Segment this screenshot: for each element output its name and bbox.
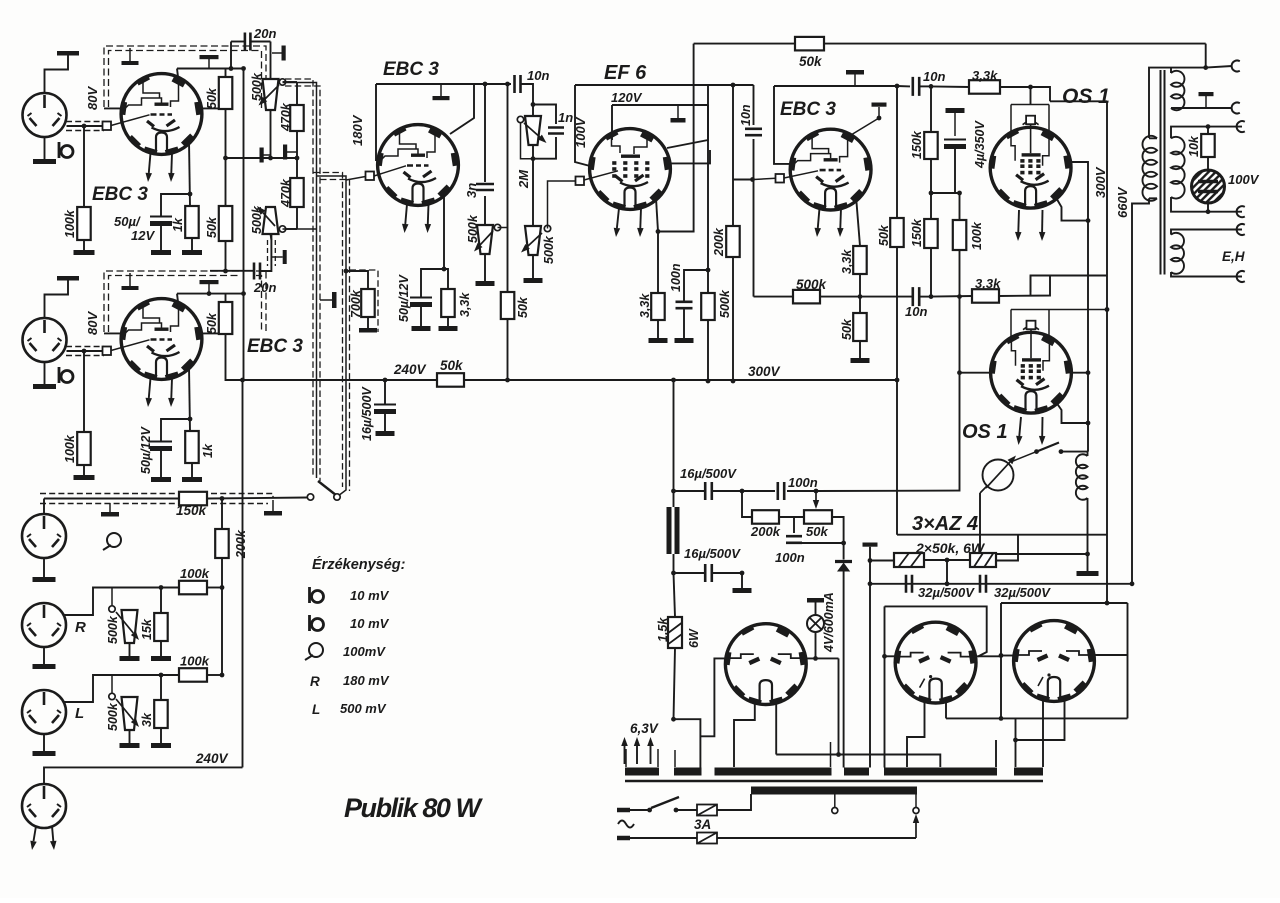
wire J3 to shielded line bbox=[43, 499, 45, 515]
node x897 rail bbox=[895, 378, 900, 383]
node coil bottom bbox=[1085, 552, 1090, 557]
wire to 3k bbox=[160, 675, 162, 700]
wire x708 vertical bbox=[707, 85, 709, 293]
svg-text:50k: 50k bbox=[840, 318, 854, 340]
resistor 200k bbox=[215, 529, 229, 558]
node heater tap bbox=[671, 717, 676, 722]
resistor 15k bbox=[154, 613, 168, 641]
wire 50k top to B+ bbox=[225, 69, 227, 78]
wire grid2 jog bbox=[1031, 276, 1108, 293]
transformer core bbox=[1160, 70, 1162, 275]
wire 150k mid bbox=[930, 159, 932, 219]
svg-text:100V: 100V bbox=[1228, 172, 1260, 187]
node x507 rail bbox=[505, 378, 510, 383]
svg-text:6W: 6W bbox=[687, 628, 701, 648]
selector terminal right bbox=[334, 494, 340, 500]
wire 15k to ground bbox=[160, 641, 162, 656]
wire node to R 100k ch2 bbox=[83, 351, 85, 432]
tube V2 EBC 3 bbox=[121, 299, 202, 380]
wire 120V inner right down bbox=[667, 105, 708, 148]
shield run pots dashed bbox=[285, 79, 313, 477]
heater arrows OS1 lower bbox=[1019, 417, 1021, 436]
wire 3.3k to OS1 grid node bbox=[1000, 86, 1031, 88]
svg-text:EBC 3: EBC 3 bbox=[383, 59, 439, 80]
capacitor 100n bias upper bbox=[742, 490, 775, 492]
svg-text:16µ/500V: 16µ/500V bbox=[360, 386, 374, 441]
wire OS plate bus bbox=[897, 534, 1107, 536]
ground below 1k V1 bbox=[182, 250, 202, 255]
tee ground 2x50k row bbox=[863, 543, 878, 547]
cathode wire EF6 bbox=[656, 198, 658, 232]
wire anode node to 3n chain bbox=[484, 84, 486, 182]
ground below 3k bbox=[151, 743, 171, 748]
svg-text:50k: 50k bbox=[205, 216, 219, 238]
ground tee at node row left bbox=[262, 154, 271, 156]
svg-text:200k: 200k bbox=[750, 524, 781, 539]
node rail x870 bbox=[868, 581, 873, 586]
shielded wire J2 to grid cap bbox=[67, 350, 104, 352]
resistor 500k x708 bbox=[701, 293, 715, 320]
svg-text:16µ/500V: 16µ/500V bbox=[680, 466, 737, 481]
capacitor 10n OS1 top bbox=[913, 77, 919, 96]
box V10 top bbox=[1001, 602, 1128, 604]
wire 100k R to bus bbox=[207, 587, 222, 589]
wire V2 left pin to shield bbox=[104, 332, 124, 334]
resistor 3.3k OS1 grid1 bbox=[931, 85, 969, 88]
wire 50u to ground bbox=[160, 226, 162, 250]
wire pot1 bottom to node bbox=[270, 110, 272, 158]
ground below pot tone A bbox=[476, 281, 495, 286]
wire 50u to ground ch2 bbox=[160, 451, 162, 477]
wire y101 link bbox=[1050, 100, 1107, 102]
svg-text:10n: 10n bbox=[739, 104, 753, 126]
pot tone A terminal bbox=[494, 224, 500, 230]
svg-text:1k: 1k bbox=[201, 443, 215, 458]
mains switch contact a bbox=[647, 808, 652, 813]
node cathode bus bbox=[1086, 218, 1091, 223]
svg-text:R: R bbox=[75, 619, 86, 636]
resistor 100k right bbox=[959, 193, 961, 220]
tube V8 AZ4 left bbox=[725, 624, 806, 705]
node cathode V1 bbox=[188, 192, 193, 197]
wire x870 ground line bbox=[869, 547, 871, 768]
selector switch blade bbox=[318, 481, 337, 496]
resistor 100k grid J2 bbox=[77, 432, 91, 465]
capacitor 100n EF6 bbox=[684, 270, 708, 301]
ground below J1 bbox=[33, 159, 56, 164]
svg-text:100k: 100k bbox=[180, 654, 210, 669]
wire between 50k 6W bbox=[924, 559, 970, 561]
secondary coil S3 bbox=[1171, 233, 1184, 274]
node grid2 junction bbox=[82, 349, 87, 354]
wire 20n left to anode line bbox=[230, 42, 232, 69]
wire V10 right pin bbox=[1091, 654, 1128, 656]
svg-text:10n: 10n bbox=[905, 304, 927, 319]
wire row to 3.3k grid2 bbox=[931, 295, 972, 298]
ground below 3.3k EF6 bbox=[649, 338, 668, 343]
cathode wire V2 to 1k bbox=[189, 366, 190, 431]
wire S2 top to hook3 bbox=[1171, 127, 1242, 139]
ground tee on anode line V1 bbox=[208, 59, 210, 69]
node lamp bottom bbox=[813, 656, 818, 661]
primary tap mid bbox=[832, 808, 838, 814]
ground tee right of 20n bbox=[272, 52, 284, 54]
svg-text:240V: 240V bbox=[393, 362, 427, 377]
wire x897 to rail bbox=[896, 247, 898, 380]
capacitor 32u/500V b bbox=[980, 575, 986, 593]
resistor 200k bias bbox=[752, 510, 779, 524]
svg-text:2M: 2M bbox=[516, 169, 531, 189]
winding bar segment B2 bbox=[715, 768, 832, 776]
wire V9 right pin bbox=[973, 655, 1001, 657]
potentiometer 500k ch1 bbox=[263, 79, 279, 110]
wire heater tap to bar bbox=[674, 719, 701, 767]
wire J1 shell to ground bbox=[45, 55, 69, 93]
fuse 3A upper bbox=[697, 805, 717, 816]
node V7 left bbox=[957, 370, 962, 375]
svg-text:180V: 180V bbox=[350, 114, 365, 146]
pot volume arrow bbox=[528, 233, 542, 246]
svg-text:100n: 100n bbox=[788, 475, 818, 490]
label mains AC bbox=[618, 821, 634, 828]
node bus R bbox=[220, 585, 225, 590]
svg-text:50k: 50k bbox=[799, 54, 823, 69]
node OS1 grid1 bbox=[1028, 85, 1033, 90]
wire 150k to selector bbox=[207, 498, 307, 499]
grid lead into V1 bbox=[111, 115, 150, 126]
legend symbol Q row3 bbox=[309, 643, 323, 657]
node 660V rail bbox=[1130, 581, 1135, 586]
ground below 700k bbox=[359, 328, 377, 333]
node 2M top bbox=[531, 102, 536, 107]
wire to pot 500k R wiper bbox=[111, 588, 113, 607]
resistor 50k x507 bbox=[501, 292, 515, 319]
wire V5 anode tee bbox=[846, 107, 879, 138]
resistor 100k R channel bbox=[179, 581, 207, 595]
wire 50k 6W b out bbox=[996, 535, 1018, 561]
wire 10n to 2M pot bbox=[521, 84, 534, 116]
wire coil bottom bbox=[1087, 498, 1089, 554]
resistor 50k anode V2 bbox=[219, 302, 233, 334]
inner wire 120V bbox=[612, 104, 708, 106]
node 4u bbox=[957, 191, 962, 196]
svg-text:3,3k: 3,3k bbox=[638, 293, 652, 318]
svg-text:200k: 200k bbox=[234, 529, 248, 559]
grid lead into V5 bbox=[754, 178, 776, 179]
wire row y296 to 10n bbox=[860, 296, 912, 298]
hook terminal 4 bbox=[1237, 206, 1245, 217]
pot L arrow bbox=[116, 699, 133, 720]
capacitor 50u/12V V1 bbox=[150, 216, 172, 218]
svg-text:E,H: E,H bbox=[1222, 249, 1245, 264]
wire feedback corner down bbox=[1205, 44, 1207, 68]
svg-text:700k: 700k bbox=[349, 289, 363, 318]
wire J1 to ground below bbox=[44, 137, 46, 159]
ground below pot volume bbox=[524, 278, 543, 283]
ground below 50u V2 bbox=[151, 477, 171, 482]
winding bar segment A bbox=[625, 768, 659, 776]
wire J4 bottom ground bbox=[43, 647, 45, 664]
potentiometer 500k L bbox=[122, 697, 138, 730]
svg-text:L: L bbox=[312, 702, 320, 717]
svg-text:300V: 300V bbox=[748, 364, 781, 379]
wire to 200k bbox=[221, 499, 223, 530]
capacitor 16u/500V lower bbox=[674, 572, 706, 574]
svg-text:3k: 3k bbox=[140, 712, 154, 727]
node x897 top bbox=[895, 84, 900, 89]
wire V8 right pin out bbox=[803, 657, 839, 659]
svg-text:10n: 10n bbox=[527, 68, 549, 83]
wire speaker bottom bbox=[1207, 203, 1209, 212]
trip switch contact right bbox=[1059, 449, 1064, 454]
node filter top bbox=[671, 489, 676, 494]
wire switch to coil bbox=[1061, 451, 1088, 453]
ground below pot R bbox=[120, 656, 140, 661]
grid lead into V2 bbox=[111, 340, 150, 351]
svg-text:1n: 1n bbox=[558, 110, 573, 125]
ground below 3.3k V3 bbox=[439, 326, 458, 331]
wire 3.3k EF6 ground bbox=[657, 320, 659, 338]
wire x959 down bbox=[958, 297, 960, 491]
tube V10 AZ4 right bbox=[1014, 621, 1095, 702]
svg-text:3,3k: 3,3k bbox=[972, 68, 998, 83]
wire coil top bbox=[1087, 452, 1089, 456]
node output top bbox=[1203, 65, 1208, 70]
svg-text:1,5k: 1,5k bbox=[656, 617, 670, 642]
shielded line to 150k bbox=[44, 498, 179, 500]
hook terminal 2 bbox=[1232, 103, 1240, 114]
wire switch lever to meter bbox=[1013, 452, 1037, 461]
wire 700k top bbox=[346, 271, 368, 289]
wire cathode to 3.3k bbox=[657, 232, 659, 294]
wire node to R 100k bbox=[83, 126, 85, 207]
svg-text:150k: 150k bbox=[910, 130, 924, 159]
ground tee V5 feed bbox=[854, 74, 856, 86]
transformer core line bbox=[625, 780, 1043, 782]
input jack J3 (pickup) bbox=[22, 514, 66, 558]
capacitor 50u/12V V3 bbox=[410, 297, 432, 299]
svg-text:3×AZ 4: 3×AZ 4 bbox=[912, 513, 978, 535]
svg-text:100mV: 100mV bbox=[343, 644, 386, 659]
wire segE end bbox=[995, 740, 997, 767]
input jack J6 (mains/aux) bbox=[22, 784, 66, 828]
svg-text:32µ/500V: 32µ/500V bbox=[918, 585, 975, 600]
potentiometer 500k R bbox=[122, 610, 138, 643]
wire choke to lower cap bbox=[673, 554, 675, 573]
svg-text:EF 6: EF 6 bbox=[604, 62, 647, 84]
ground tee right of 20n ch2 bbox=[271, 256, 282, 258]
ground below 100k ch2 bbox=[74, 475, 95, 480]
svg-text:50k: 50k bbox=[205, 87, 219, 109]
wire switch to fuse bbox=[676, 809, 697, 811]
wire 20n ch2 to pot2 bbox=[261, 234, 272, 271]
wire pot R to ground bbox=[129, 643, 131, 656]
wire 50k x507 to rail bbox=[507, 319, 509, 380]
hook terminal 6 bbox=[1237, 271, 1245, 282]
wire volume wiper to EF6 grid bbox=[548, 181, 577, 229]
node grid1 junction bbox=[82, 124, 87, 129]
pot R arrow bbox=[116, 612, 133, 633]
wire 100n to pot wiper bbox=[787, 490, 816, 492]
relay coil bbox=[1076, 454, 1088, 500]
cathode wire V1 to 1k bbox=[189, 141, 190, 206]
svg-text:3,3k: 3,3k bbox=[840, 249, 854, 274]
wire S3 top to hook5 bbox=[1171, 230, 1242, 235]
diode bias bbox=[835, 560, 852, 563]
resistor 50k 6W b bbox=[970, 553, 996, 567]
box V9 plate feed bbox=[885, 606, 987, 656]
node cathode V2 bbox=[188, 417, 193, 422]
resistor 3k bbox=[154, 700, 168, 728]
pot volume terminal bbox=[544, 225, 550, 231]
input jack J2 (radio) bbox=[23, 318, 67, 362]
node 16u lower bbox=[740, 571, 745, 576]
filter choke bbox=[667, 507, 672, 554]
wire mid to 470k lower bbox=[296, 158, 298, 178]
pot2 wiper terminal bbox=[279, 226, 285, 232]
resistor 10k bbox=[1207, 127, 1209, 134]
ground tee on anode line V2 bbox=[208, 284, 210, 294]
wire 10n to node bbox=[920, 85, 932, 87]
resistor 50k anode V1 bbox=[219, 77, 233, 109]
wire 50u V3 ground bbox=[420, 307, 422, 326]
wire node to 200k bbox=[742, 491, 752, 517]
legend symbol b row2 bbox=[308, 615, 311, 631]
resistor 150k upper bbox=[930, 86, 932, 132]
node x733 rail bbox=[731, 379, 736, 384]
wire J4 to R network bbox=[64, 588, 179, 616]
svg-text:10k: 10k bbox=[1187, 135, 1201, 157]
wire S1 bottom to hook2 bbox=[1171, 107, 1232, 109]
svg-text:50k: 50k bbox=[440, 358, 464, 373]
svg-text:200k: 200k bbox=[712, 227, 726, 257]
wire y754 heater run bbox=[776, 755, 940, 768]
wire coil to ground bbox=[1087, 554, 1089, 571]
wire 16u lower right bbox=[712, 572, 742, 574]
box wire EF6 left bbox=[575, 85, 590, 166]
svg-text:500k: 500k bbox=[250, 72, 264, 101]
node 470k midpoint bbox=[295, 156, 300, 161]
wire x1030 to top cap lower bbox=[1030, 276, 1032, 297]
wire V8 left pin bbox=[700, 658, 728, 736]
wire x733 vertical bbox=[732, 85, 734, 226]
wire pot volume to ground bbox=[532, 255, 534, 278]
ground at J2 top bbox=[57, 276, 79, 281]
wire 1.5k down bbox=[674, 648, 676, 719]
node mid 50k 6W bbox=[945, 558, 950, 563]
grid cap square V1 bbox=[103, 122, 112, 131]
node x507 top bbox=[505, 82, 510, 87]
wire 100n ground bbox=[683, 309, 685, 338]
wire 1n bottom bbox=[533, 137, 556, 159]
capacitor 4u/350V bbox=[944, 139, 966, 141]
tube V1 EBC 3 bbox=[121, 74, 202, 155]
ground below 100k bbox=[74, 250, 95, 255]
ground below 16u rail bbox=[376, 431, 395, 436]
pilot lamp 4V/600mA bbox=[807, 615, 824, 632]
capacitor 1n bbox=[533, 105, 556, 125]
input jack J4 (R) bbox=[22, 603, 66, 647]
ground tee on enclosure top bbox=[129, 48, 131, 61]
winding bar segment E bbox=[1014, 768, 1043, 776]
wire V9 heater leads bbox=[907, 700, 925, 767]
wire to pot 500k L wiper bbox=[111, 675, 113, 693]
node grid V5 bbox=[750, 177, 755, 182]
tube V3 EBC 3 phase splitter bbox=[378, 125, 459, 206]
tube V9 AZ4 middle bbox=[895, 622, 976, 703]
heater arrows V2 bbox=[149, 378, 151, 398]
pot2 arrow bbox=[263, 213, 275, 226]
wire 150k lower to row bbox=[930, 248, 932, 297]
resistor 1k cathode V1 bbox=[185, 206, 199, 238]
wire 3k to ground bbox=[160, 728, 162, 743]
wire 3.3k V5 to node bbox=[859, 274, 861, 297]
svg-text:500 mV: 500 mV bbox=[340, 701, 387, 716]
input jack J1 (radio) bbox=[23, 93, 67, 137]
cathode wire V3 bbox=[443, 191, 445, 269]
ground tee S1 bbox=[1205, 96, 1207, 108]
wire V1 left pin to shield bbox=[104, 107, 124, 109]
wire to 16u/500V bbox=[384, 380, 386, 404]
svg-text:EBC 3: EBC 3 bbox=[780, 99, 836, 120]
wire J3 bottom ground bbox=[43, 558, 45, 577]
shield run to splitter grid dashed bbox=[313, 173, 343, 488]
svg-text:50µ/12V: 50µ/12V bbox=[139, 426, 153, 474]
trip switch blade bbox=[1037, 443, 1060, 452]
wire 500k x708 to rail bbox=[707, 320, 709, 381]
wire 2M to pot 500k B bbox=[532, 145, 534, 226]
wire to 3.3k V3 bbox=[444, 269, 448, 289]
screen enclosure V1 dash-dot bbox=[104, 46, 266, 108]
ground below pot L bbox=[120, 743, 140, 748]
node 200k tap bbox=[220, 496, 225, 501]
heater arrows V5 bbox=[818, 208, 820, 228]
svg-text:300V: 300V bbox=[1093, 166, 1108, 198]
ground tee V3 box bbox=[440, 84, 442, 96]
svg-text:50k: 50k bbox=[877, 224, 891, 246]
node V5 out row bbox=[858, 294, 863, 299]
anode wire V2 top bbox=[177, 293, 244, 295]
wire rail to filter bbox=[673, 380, 675, 491]
wire 100k L to bus bbox=[207, 674, 222, 676]
resistor 470k upper bbox=[296, 82, 298, 105]
wire 470k to mid node bbox=[296, 131, 298, 158]
svg-text:100V: 100V bbox=[573, 116, 588, 148]
tube V4 EF 6 bbox=[590, 129, 671, 210]
resistor 3.3k V3 cathode bbox=[441, 289, 455, 317]
wire grid tap x733 bbox=[733, 179, 753, 181]
wire 2M wiper loop bbox=[521, 123, 534, 159]
secondary coil S2 bbox=[1171, 137, 1185, 199]
resistor 50k x897 bbox=[896, 86, 898, 218]
svg-text:500k: 500k bbox=[718, 289, 732, 318]
wire grid2 pins line lower bbox=[1011, 309, 1107, 311]
grid cap square V3 bbox=[366, 172, 375, 181]
pot tone A arrow bbox=[480, 231, 493, 245]
capacitor 100n bias lower bbox=[793, 517, 795, 533]
ground tee on selector line bbox=[272, 500, 274, 511]
mains lead lower bbox=[617, 836, 630, 841]
hook terminal 5 bbox=[1237, 224, 1245, 235]
wire 50k bottom to node 158 bbox=[225, 109, 227, 206]
pickup symbol b at J2 bbox=[58, 367, 61, 383]
box wire V3 right to pin bbox=[450, 84, 474, 134]
ground tee at mid node bbox=[285, 151, 297, 153]
svg-text:4V/600mA: 4V/600mA bbox=[822, 592, 836, 653]
svg-text:EBC 3: EBC 3 bbox=[92, 184, 148, 205]
wire 100k to ground bbox=[83, 240, 85, 250]
hook terminal 3 bbox=[1237, 121, 1245, 132]
